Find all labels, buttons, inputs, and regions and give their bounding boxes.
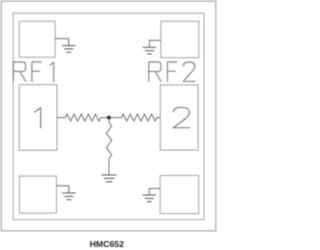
wire bottom-left pad to ground: [57, 186, 69, 193]
port box 1: [19, 85, 57, 151]
ground bottom-left: [62, 193, 75, 200]
port box 2: [160, 85, 198, 150]
node junction dot: [107, 116, 111, 120]
label RF2: [149, 62, 195, 82]
wire top-right pad to ground: [149, 40, 160, 47]
ground top-right: [143, 47, 156, 54]
wire top-left pad to ground: [55, 39, 68, 46]
pad bottom-left: [20, 176, 57, 213]
ground top-left: [62, 46, 75, 53]
pad top-left: [19, 21, 55, 57]
pin number 1: [35, 108, 41, 128]
chip outline: [13, 13, 204, 219]
wire bottom-right pad to ground: [149, 189, 160, 195]
resistor R3 (shunt, node to ground): [106, 119, 111, 175]
pad top-right: [161, 21, 199, 58]
pad bottom-right: [160, 176, 199, 214]
resistor R1 (series, port1 to node): [57, 114, 107, 121]
ground bottom-right: [143, 195, 156, 202]
ground center: [102, 175, 117, 182]
svg-text:HMC652: HMC652: [90, 239, 124, 249]
label RF1: [13, 62, 53, 82]
resistor R2 (series, node to port2): [110, 114, 160, 121]
pin number 2: [173, 107, 189, 127]
